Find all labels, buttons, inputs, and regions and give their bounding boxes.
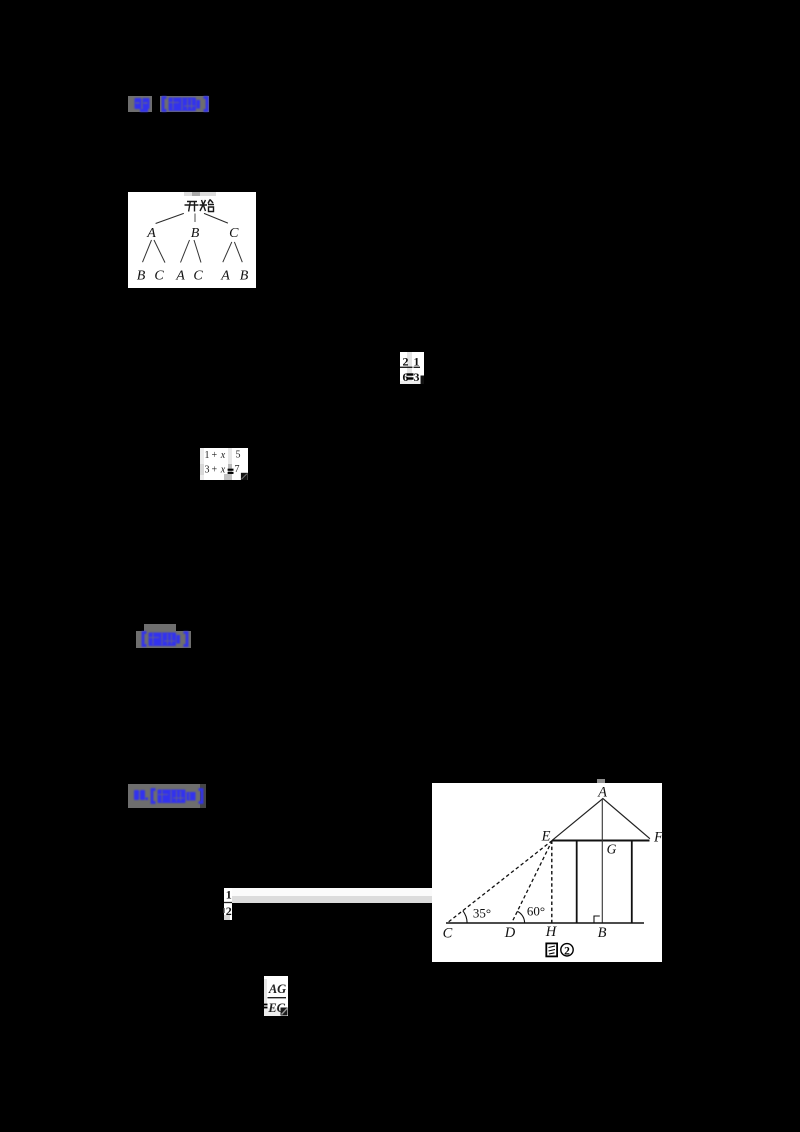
svg-text:D: D xyxy=(503,925,515,941)
svg-text:x: x xyxy=(220,464,226,475)
svg-text:1: 1 xyxy=(226,888,232,902)
svg-text:B: B xyxy=(240,269,249,284)
roof xyxy=(552,799,650,841)
svg-text:C: C xyxy=(193,269,203,284)
svg-text:C: C xyxy=(442,926,452,942)
svg-text:H: H xyxy=(544,924,557,940)
svg-text:2: 2 xyxy=(403,355,409,369)
svg-text:7: 7 xyxy=(235,464,240,475)
labels C D H B xyxy=(442,924,606,941)
svg-text:2: 2 xyxy=(564,946,570,958)
dashed E-H xyxy=(550,841,552,923)
highlight block "22." xyxy=(128,96,152,112)
svg-text:G: G xyxy=(606,842,616,857)
svg-text:B: B xyxy=(137,269,146,284)
connector lines xyxy=(156,213,228,223)
svg-text:5: 5 xyxy=(236,449,241,460)
carets xyxy=(143,240,243,263)
dashed E-C xyxy=(447,841,552,923)
highlight block "【解析】" #1 xyxy=(160,96,209,112)
angle arc at C xyxy=(462,911,466,923)
highlight block "【解析】" #2 xyxy=(144,624,176,631)
svg-text:B: B xyxy=(597,925,606,941)
pillars xyxy=(575,841,577,922)
formula patch AG/EG xyxy=(264,976,288,1016)
svg-text:A: A xyxy=(146,226,156,241)
svg-text:A: A xyxy=(175,269,185,284)
svg-text:60°: 60° xyxy=(527,904,545,919)
svg-text:35°: 35° xyxy=(473,906,491,921)
svg-text:AG: AG xyxy=(268,982,286,996)
svg-text:F: F xyxy=(653,830,663,846)
gray smudge at tree box top xyxy=(184,192,216,196)
svg-text:C: C xyxy=(154,269,164,284)
svg-text:x: x xyxy=(220,449,226,460)
svg-text:B: B xyxy=(191,226,200,241)
geometry figure box xyxy=(597,779,605,785)
svg-text:+: + xyxy=(212,449,218,460)
central pole A-B xyxy=(601,799,603,922)
highlight block "23.【解析】" xyxy=(128,784,200,808)
caption 图(2) xyxy=(546,944,573,958)
svg-text:A: A xyxy=(597,785,607,801)
tree diagram box xyxy=(128,192,256,288)
dashed E-D xyxy=(511,841,552,923)
svg-text:C: C xyxy=(229,226,239,241)
svg-text:+: + xyxy=(212,464,218,475)
row1 letters xyxy=(146,226,239,241)
svg-text:3: 3 xyxy=(205,464,210,475)
svg-text:6: 6 xyxy=(403,370,409,384)
svg-text:1: 1 xyxy=(205,449,210,460)
angle arc at D xyxy=(517,912,524,924)
ground line xyxy=(446,922,644,924)
label 开始 xyxy=(185,200,215,212)
band: white strip + gray strip + 1/2 column xyxy=(224,888,432,896)
eaves line E-F xyxy=(552,840,649,842)
row2 letters xyxy=(137,269,249,284)
svg-text:E: E xyxy=(540,829,550,845)
right-angle mark at B xyxy=(594,916,600,922)
svg-text:1: 1 xyxy=(414,355,420,369)
svg-text:A: A xyxy=(220,269,230,284)
formula patch 2/6=1/3 xyxy=(400,352,424,384)
svg-text:3: 3 xyxy=(414,370,420,384)
formula patch (1+x)/(3+x)=5/7 xyxy=(200,448,248,480)
